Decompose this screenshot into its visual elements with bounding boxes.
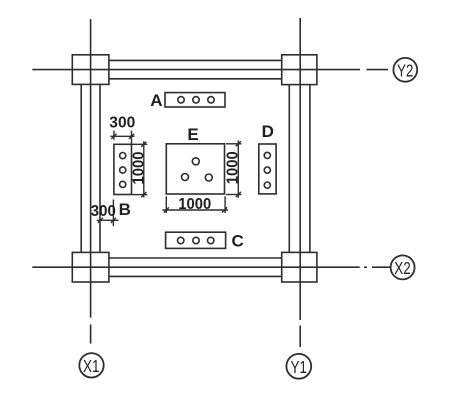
axis Y1 dashed stub below — [299, 282, 301, 320]
svg-text:300: 300 — [91, 203, 116, 220]
svg-text:1000: 1000 — [224, 151, 241, 184]
axis X1 dashed stub below — [90, 282, 92, 318]
dim E1000b extension lines — [165, 196, 167, 213]
dim B1000 extension lines — [132, 143, 147, 145]
svg-text:Y1: Y1 — [290, 357, 307, 377]
beam right face lines — [288, 84, 290, 252]
axis Y2 horizontal centerline (top) — [32, 69, 360, 71]
dim 300b ticks — [98, 218, 103, 223]
bubble X1 — [79, 353, 103, 377]
svg-text:1000: 1000 — [178, 196, 211, 213]
plate E rectangle — [166, 144, 224, 194]
beam left face lines — [80, 84, 82, 252]
axis X2 horizontal centerline (bottom) — [32, 266, 359, 268]
dim E1000b ticks — [164, 207, 169, 212]
svg-text:300: 300 — [109, 115, 135, 132]
axis Y2 dashed stub right — [367, 69, 389, 71]
dim 300 ticks — [111, 134, 116, 139]
svg-text:Y2: Y2 — [397, 60, 414, 80]
plate C bolt holes — [178, 237, 184, 243]
svg-text:B: B — [119, 200, 131, 219]
svg-text:C: C — [232, 232, 244, 251]
svg-text:X2: X2 — [394, 258, 411, 278]
dimension 1000 (plate E width) line — [163, 209, 229, 211]
plate D rectangle — [259, 144, 276, 194]
plate B rectangle — [114, 144, 132, 194]
svg-text:1000: 1000 — [130, 151, 147, 184]
dim 300 extension lines — [113, 131, 115, 140]
dim E1000r extension lines — [226, 143, 242, 145]
column bottom-left — [72, 252, 109, 282]
svg-text:X1: X1 — [83, 356, 100, 376]
axis X1 vertical centerline (left) — [90, 19, 92, 282]
plate E bolt holes — [192, 158, 199, 165]
plate A bolt holes — [178, 97, 184, 103]
plate C rectangle — [166, 232, 226, 248]
axis X2 dashed stub right — [364, 266, 367, 268]
dim B1000 ticks — [141, 142, 146, 147]
bubble Y2 — [393, 58, 417, 82]
beam top face lines — [109, 59, 281, 61]
column top-left — [72, 55, 109, 85]
dim 300b extension line — [112, 200, 114, 227]
column top-right — [282, 55, 317, 85]
axis Y1 vertical centerline (right) — [299, 18, 301, 282]
dimension 1000 (plate B height) line — [143, 141, 145, 197]
svg-text:D: D — [262, 122, 274, 141]
dimension 1000 (plate E height) line — [237, 140, 239, 197]
plate A rectangle — [165, 93, 225, 107]
dimension 300 (plate B width) line — [110, 135, 134, 137]
beam bottom face lines — [109, 257, 281, 259]
bubble Y1 — [286, 354, 311, 379]
plate B bolt holes — [120, 153, 126, 159]
bubble X2 — [391, 255, 415, 279]
dimension 300 (plate B offset, bottom) line — [97, 219, 119, 221]
dim E1000r ticks — [236, 141, 241, 146]
svg-text:A: A — [150, 91, 162, 110]
column bottom-right — [282, 252, 317, 282]
svg-text:E: E — [187, 125, 198, 144]
plate D bolt holes — [264, 152, 270, 158]
